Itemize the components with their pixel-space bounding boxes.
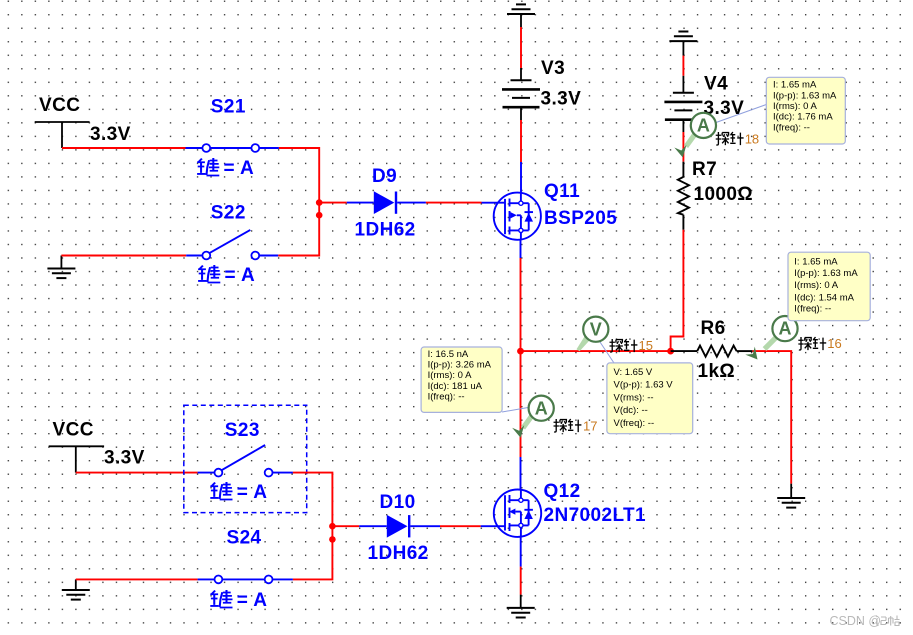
wire V3 to Q11 source (520, 107, 522, 193)
svg-text:I(freq): --: I(freq): -- (794, 304, 831, 315)
ground (top of V4) (669, 31, 697, 55)
key label 键 = A (S24) (210, 590, 267, 611)
svg-text:V(rms): --: V(rms): -- (614, 392, 654, 403)
svg-text:A: A (535, 398, 548, 418)
svg-text:S21: S21 (211, 97, 246, 118)
probe label 探针 15 (610, 338, 653, 353)
transistor Q11 (PMOS BSP205) (482, 193, 541, 240)
value label 3.3V (VCC top) (90, 124, 131, 145)
svg-text:S23: S23 (225, 420, 260, 441)
switch S22 (open) (186, 230, 278, 260)
wire R7 to node (671, 230, 684, 351)
probe 16 leader (788, 317, 794, 322)
svg-text:VCC: VCC (39, 95, 80, 116)
probe label 探针 17 (554, 419, 598, 434)
wire node segment (331, 526, 333, 539)
probe 18 leader (716, 105, 766, 123)
svg-text:I(dc): 1.54 mA: I(dc): 1.54 mA (794, 293, 854, 304)
probe box 18 (766, 77, 845, 144)
probe 15 leader (599, 341, 618, 370)
probe 16 (A) (745, 316, 797, 363)
junction (329, 536, 336, 543)
svg-text:VCC: VCC (53, 420, 94, 441)
label D10 (380, 492, 416, 513)
value label 3.3V (V3) (541, 89, 582, 110)
junction (329, 523, 336, 530)
label S22 (211, 203, 246, 224)
svg-text:3.3V: 3.3V (104, 448, 145, 469)
wire S21 to node (279, 148, 319, 203)
svg-text:1DH62: 1DH62 (368, 543, 429, 564)
svg-text:I(rms): 0 A: I(rms): 0 A (794, 280, 838, 291)
svg-text:R7: R7 (692, 159, 717, 180)
svg-text:I(rms): 0 A: I(rms): 0 A (428, 370, 472, 381)
svg-text:V3: V3 (541, 58, 565, 79)
selection box (S23) (184, 405, 307, 512)
junction (667, 348, 674, 355)
svg-text:CSDN @: CSDN @ (830, 614, 882, 628)
svg-text:17: 17 (583, 419, 597, 434)
probe box 16 (788, 252, 870, 321)
svg-text:= A: = A (225, 265, 256, 286)
svg-text:V(freq): --: V(freq): -- (614, 418, 655, 429)
svg-text:I: 16.5 nA: I: 16.5 nA (428, 349, 469, 360)
svg-text:D9: D9 (372, 166, 397, 187)
ground (S24) (62, 579, 90, 599)
label Q12 (544, 481, 581, 502)
value label 1DH62 (D10) (368, 543, 429, 564)
svg-text:V(p-p): 1.63 V: V(p-p): 1.63 V (614, 380, 674, 391)
svg-text:R6: R6 (701, 318, 726, 339)
switch S21 (186, 144, 279, 152)
svg-text:2N7002LT1: 2N7002LT1 (544, 505, 647, 526)
wire ground to V4 (682, 56, 684, 93)
wire VCC to S23 (76, 472, 198, 474)
svg-text:I(p-p): 1.63 mA: I(p-p): 1.63 mA (773, 90, 837, 101)
source V4 (664, 93, 702, 120)
svg-text:I(p-p): 1.63 mA: I(p-p): 1.63 mA (794, 268, 858, 279)
label S21 (211, 97, 246, 118)
probe box 15 (607, 363, 693, 434)
wire Q12 source to ground (520, 537, 522, 608)
watermark (830, 614, 900, 628)
source V3 (502, 80, 540, 107)
svg-text:1000Ω: 1000Ω (694, 184, 754, 205)
junction (517, 348, 524, 355)
svg-text:= A: = A (237, 590, 268, 611)
svg-text:I(dc): 181 uA: I(dc): 181 uA (428, 381, 483, 392)
svg-text:V: V (590, 319, 602, 339)
value label 3.3V (V4) (704, 98, 745, 119)
wire S23 to node (293, 473, 333, 527)
wire ground to S22 (61, 255, 186, 257)
wire Q11 drain to node (520, 240, 522, 351)
svg-text:A: A (697, 116, 710, 136)
svg-text:I(freq): --: I(freq): -- (773, 122, 810, 133)
wire S24 to node (293, 539, 333, 579)
svg-text:18: 18 (745, 132, 759, 147)
probe label 探针 16 (798, 336, 841, 351)
wire node segment (318, 203, 320, 216)
svg-text:I: 1.65 mA: I: 1.65 mA (773, 80, 817, 91)
svg-text:I: 1.65 mA: I: 1.65 mA (794, 256, 838, 267)
svg-text:S24: S24 (227, 528, 262, 549)
wire node to D10 (332, 525, 359, 527)
wire node to Q12 drain (520, 351, 522, 490)
probe 17 (A) (512, 396, 554, 439)
svg-text:V: 1.65 V: V: 1.65 V (614, 367, 653, 378)
junction (316, 199, 323, 206)
svg-text:D10: D10 (380, 492, 416, 513)
wire R6 to ground (752, 351, 791, 498)
wire S22 to node (278, 215, 319, 255)
label R7 (692, 159, 717, 180)
svg-text:= A: = A (237, 482, 268, 503)
wire VCC to S21 (62, 147, 186, 149)
value label BSP205 (Q11) (544, 208, 617, 229)
label D9 (372, 166, 397, 187)
wire D9 to Q11 gate (426, 202, 482, 204)
value label 3.3V (VCC bottom) (104, 448, 145, 469)
svg-text:V4: V4 (704, 74, 728, 95)
value label 1kΩ (R6) (698, 361, 736, 382)
svg-text:Q11: Q11 (544, 181, 580, 202)
junction (316, 212, 323, 219)
label S24 (227, 528, 262, 549)
value label 1000Ω (R7) (694, 184, 754, 205)
probe 17 leader (502, 408, 528, 413)
svg-text:I(dc): 1.76 mA: I(dc): 1.76 mA (773, 112, 833, 123)
wire D10 to Q12 gate (440, 525, 481, 527)
label S23 (225, 420, 260, 441)
probe 18 (A) (674, 113, 716, 159)
switch S24 (198, 576, 293, 584)
svg-text:1kΩ: 1kΩ (698, 361, 736, 382)
svg-text:I(freq): --: I(freq): -- (428, 391, 465, 402)
power VCC (bottom) (49, 420, 104, 473)
resistor R6 (671, 346, 753, 357)
svg-text:3.3V: 3.3V (541, 89, 582, 110)
svg-text:I(p-p): 3.26 mA: I(p-p): 3.26 mA (428, 360, 492, 371)
svg-text:S22: S22 (211, 203, 246, 224)
value label 1DH62 (D9) (355, 220, 416, 241)
svg-text:BSP205: BSP205 (544, 208, 617, 229)
svg-text:A: A (779, 319, 792, 339)
wire ground to S24 (76, 578, 198, 580)
svg-text:15: 15 (639, 338, 653, 353)
ground (right) (777, 498, 805, 508)
probe 15 (V) (577, 317, 609, 352)
power VCC (top) (35, 95, 90, 148)
svg-text:1DH62: 1DH62 (355, 220, 416, 241)
label V3 (541, 58, 565, 79)
diode D10 (359, 515, 440, 538)
label R6 (701, 318, 726, 339)
key label 键 = A (S21) (197, 158, 254, 179)
wire node to D9 (319, 202, 347, 204)
svg-text:= A: = A (224, 158, 255, 179)
ground (Q12) (507, 608, 535, 618)
key label 键 = A (S22) (198, 265, 255, 286)
wire ground to V3 (520, 27, 522, 80)
label V4 (704, 74, 728, 95)
svg-text:3.3V: 3.3V (90, 124, 131, 145)
svg-text:Q12: Q12 (544, 481, 581, 502)
key label 键 = A (S23) (210, 482, 267, 503)
ground (top of V3) (507, 4, 535, 27)
probe box 17 (421, 347, 502, 412)
wire V4 to R7 (682, 120, 684, 162)
wire node to R6 (output net) (521, 350, 671, 352)
transistor Q12 (NMOS 2N7002LT1) (481, 490, 542, 537)
diode D9 (347, 191, 426, 214)
svg-text:16: 16 (827, 336, 841, 351)
resistor R7 (678, 162, 689, 230)
svg-text:I(rms): 0 A: I(rms): 0 A (773, 101, 817, 112)
switch S23 (open) (198, 445, 293, 477)
value label 2N7002LT1 (Q12) (544, 505, 647, 526)
svg-text:V(dc): --: V(dc): -- (614, 405, 648, 416)
label Q11 (544, 181, 580, 202)
ground (S22) (47, 256, 75, 279)
probe label 探针 18 (716, 132, 759, 147)
